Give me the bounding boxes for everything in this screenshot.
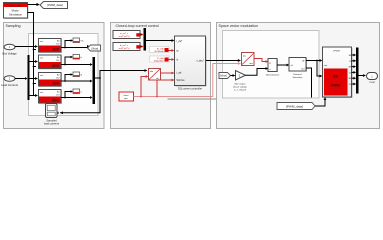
svg-text:ePWM: ePWM bbox=[333, 51, 340, 53]
svg-text:Closed-loop current control: Closed-loop current control bbox=[116, 24, 159, 28]
inner white area box3 bbox=[223, 31, 320, 99]
DQ current controller block bbox=[175, 36, 207, 91]
ADC block row1 bbox=[39, 39, 63, 54]
svg-text:Ic: Ic bbox=[81, 91, 83, 93]
wire from tag to SVPWM bottom bbox=[315, 97, 326, 106]
svg-text:Space vector modulation: Space vector modulation bbox=[219, 24, 259, 28]
wire Fi_fdb to controller in3 bbox=[169, 58, 175, 61]
ADC block row4 bbox=[39, 90, 63, 105]
svg-text:[Vbus]: [Vbus] bbox=[91, 48, 98, 51]
svg-text:[PWM_data]: [PWM_data] bbox=[47, 3, 63, 7]
svg-text:Saturation: Saturation bbox=[293, 76, 304, 79]
gain triangle 1/2 bbox=[233, 71, 247, 92]
wire ADC row3 output bbox=[61, 80, 91, 82]
ADC block row2 bbox=[39, 55, 63, 70]
from tag [Vbus] right bbox=[219, 73, 231, 79]
wires SVPWM outputs to mux3 bbox=[352, 54, 357, 86]
svg-text:sim: sim bbox=[40, 41, 43, 43]
svg-text:powergui: powergui bbox=[10, 4, 22, 8]
reference source block ib_ref bbox=[113, 43, 140, 51]
svg-text:Sat: Sat bbox=[301, 67, 305, 70]
wire theta branch to controller SinCos bbox=[157, 79, 175, 97]
wire ADC row2 output bbox=[61, 64, 91, 66]
svg-text:Fs_fdb: Fs_fdb bbox=[157, 48, 164, 50]
divide block Normalization bbox=[266, 59, 280, 77]
svg-text:ADC: ADC bbox=[52, 64, 60, 68]
svg-text:theta: theta bbox=[124, 94, 130, 97]
svg-text:PWM: PWM bbox=[369, 82, 375, 84]
svg-text:ADC: ADC bbox=[52, 98, 60, 102]
svg-text:[PWM_data]: [PWM_data] bbox=[286, 104, 303, 108]
outport oval 1 PWM bbox=[367, 73, 378, 85]
wire branch down to scope bbox=[60, 78, 100, 114]
junction dots on sim trigger wire bbox=[33, 49, 36, 96]
wire Fs_fdb to controller in2 bbox=[169, 49, 175, 52]
DAC mini block row4 bbox=[65, 89, 82, 98]
scope Sampled load currents bbox=[44, 104, 60, 126]
wire abc2dq out to controller in4 bbox=[161, 72, 175, 75]
svg-text:Fi_fdb: Fi_fdb bbox=[157, 58, 164, 60]
svg-text:ADC: ADC bbox=[52, 47, 60, 51]
svg-text:Sampling: Sampling bbox=[6, 24, 21, 28]
wire dq2abc out to divide bbox=[254, 59, 269, 63]
wire demux to ADC2 bbox=[30, 60, 39, 63]
inner white area box1 bbox=[29, 34, 99, 116]
svg-text:is +/- Vbus/2: is +/- Vbus/2 bbox=[234, 89, 247, 91]
svg-text:sim: sim bbox=[40, 58, 43, 60]
svg-text:ib_ref* =: ib_ref* = bbox=[120, 44, 129, 47]
svg-text:Normalization: Normalization bbox=[266, 74, 280, 77]
svg-text:5000x300: 5000x300 bbox=[154, 61, 164, 63]
svg-text:sin(2*pi*f*t): sin(2*pi*f*t) bbox=[119, 35, 130, 38]
wire divide to extsat bbox=[277, 64, 290, 67]
wire v_abc* to transform3 bbox=[206, 59, 241, 62]
wire ib_ref to mux2 bbox=[140, 45, 144, 48]
wire oval1 to ADC1 bbox=[15, 45, 38, 48]
svg-text:load currents: load currents bbox=[44, 121, 60, 125]
wire ADC row1 output bbox=[61, 47, 87, 49]
powergui mode block bbox=[4, 3, 29, 20]
inport oval 2 Load Currents bbox=[1, 76, 19, 87]
from tag Fs_fdb bbox=[150, 47, 170, 54]
SVPWM big block bbox=[323, 47, 353, 98]
wire ia_ref to mux2 bbox=[140, 33, 144, 36]
wire theta main (pink) bbox=[134, 62, 242, 97]
wire mux3 to outport bbox=[359, 74, 367, 77]
transform block dq2abc bbox=[242, 53, 255, 66]
wire oval2 to demux bbox=[15, 77, 28, 80]
inport oval 1 Bus Voltage bbox=[2, 44, 17, 55]
svg-text:SinCos: SinCos bbox=[177, 79, 186, 82]
demux bbox=[28, 55, 30, 100]
svg-text:DQ current controller: DQ current controller bbox=[178, 87, 202, 91]
svg-text:40.96kHz: 40.96kHz bbox=[154, 51, 163, 53]
mux2 refs bbox=[144, 28, 147, 51]
DAC mini block row1 bbox=[65, 38, 83, 48]
wire powergui to Goto PWM_data bbox=[28, 3, 40, 6]
svg-text:Bus Voltage: Bus Voltage bbox=[2, 52, 17, 56]
area box Closed-loop current control bbox=[111, 23, 211, 129]
ADC block row3 bbox=[39, 73, 63, 88]
svg-text:sin(2*pi*f*t): sin(2*pi*f*t) bbox=[119, 47, 130, 50]
Goto tag [PWM_data] top bbox=[40, 2, 68, 9]
svg-text:Load Currents: Load Currents bbox=[1, 83, 19, 87]
svg-text:External: External bbox=[293, 73, 302, 76]
DAC mini block row2 bbox=[65, 55, 83, 65]
svg-text:ADC: ADC bbox=[52, 81, 60, 85]
svg-text:phase voltage: phase voltage bbox=[233, 85, 247, 88]
wire mux2 to controller in1 bbox=[146, 39, 175, 42]
svg-text:v_abc*: v_abc* bbox=[196, 60, 204, 63]
svg-text:sim: sim bbox=[40, 75, 43, 77]
wire mux1 output to controller path bbox=[95, 69, 148, 79]
svg-text:i_ab: i_ab bbox=[176, 72, 182, 75]
mux3 bbox=[356, 48, 359, 94]
svg-text:Max output: Max output bbox=[235, 82, 246, 85]
svg-text:[Vbus]: [Vbus] bbox=[220, 75, 227, 78]
wire vbus to gain bbox=[231, 74, 236, 77]
svg-text:Simulation: Simulation bbox=[9, 13, 23, 17]
theta source block (red border) bbox=[119, 92, 134, 101]
wire demux to ADC3 bbox=[30, 77, 39, 80]
wire extsat out to big block in1 and in2 bbox=[306, 59, 323, 77]
transform block abc2dq bbox=[149, 69, 161, 81]
svg-text:i_dq*: i_dq* bbox=[176, 40, 182, 43]
svg-text:ia_ref* =: ia_ref* = bbox=[120, 32, 129, 35]
mux1 bbox=[90, 57, 95, 104]
svg-text:PWM: PWM bbox=[331, 84, 340, 88]
wire demux to ADC4 bbox=[30, 94, 39, 97]
area box Space vector modulation bbox=[217, 23, 380, 129]
DAC mini block row3 bbox=[65, 72, 83, 81]
wire theta branch to abc2dq in2 bbox=[141, 75, 149, 96]
wire ADC row4 output bbox=[61, 97, 91, 99]
External Saturation block bbox=[289, 58, 307, 80]
mystery grey line bbox=[168, 98, 217, 100]
wire gain to divide in2 bbox=[246, 67, 269, 75]
svg-text:SV: SV bbox=[333, 75, 338, 79]
from tag [PWM_data] bottom bbox=[277, 103, 315, 110]
area box Sampling bbox=[4, 23, 105, 129]
svg-text:sim: sim bbox=[324, 65, 328, 67]
wire sat port down bbox=[306, 68, 312, 98]
from tag Fi_fdb bbox=[150, 56, 170, 63]
svg-text:sim: sim bbox=[40, 92, 43, 94]
svg-text:Vln: Vln bbox=[81, 40, 84, 42]
wire sim trigger from powergui down into Sampling bbox=[28, 13, 34, 96]
goto tag [Vbus] bbox=[87, 45, 101, 51]
reference source block ia_ref bbox=[113, 31, 140, 39]
